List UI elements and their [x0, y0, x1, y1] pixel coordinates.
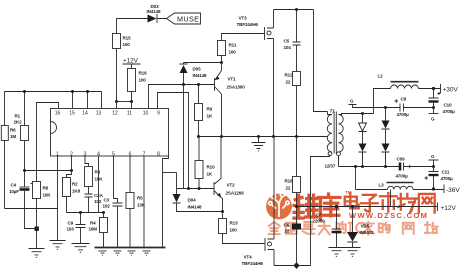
wire top rail to T1 primary top [314, 10, 328, 112]
svg-text:C9: C9 [68, 221, 74, 226]
svg-text:VT3: VT3 [239, 16, 248, 21]
svg-text:12/37: 12/37 [325, 164, 336, 169]
bottom wire VT4 source [274, 265, 311, 267]
svg-text:IN5402: IN5402 [360, 230, 375, 235]
resistor R15 [116, 19, 118, 34]
svg-text:C4: C4 [11, 183, 17, 188]
svg-text:TBF244H6: TBF244H6 [242, 261, 264, 266]
wire pin4 down [98, 156, 100, 213]
diode D9 [382, 144, 390, 152]
svg-text:1M: 1M [10, 134, 16, 139]
svg-text:100: 100 [230, 228, 238, 233]
svg-text:TBF244H6: TBF244H6 [237, 22, 259, 27]
wire pin9 staircase [158, 93, 189, 189]
diode VD5 [351, 205, 354, 208]
svg-text:100: 100 [229, 50, 237, 55]
transistor VT2 [213, 182, 215, 195]
diode D8 [384, 106, 387, 109]
net label MUSE [167, 13, 201, 24]
svg-text:D04: D04 [188, 198, 197, 203]
middle bus wire [199, 136, 328, 138]
diode D7 [359, 144, 367, 152]
resistor R13 [222, 212, 224, 219]
wire node to pin2 net [25, 170, 72, 172]
svg-text:22000: 22000 [313, 219, 326, 224]
ground [72, 244, 90, 253]
svg-text:L3: L3 [379, 183, 385, 188]
svg-text:L2: L2 [378, 74, 384, 79]
svg-text:R4: R4 [90, 221, 96, 226]
resistor R4 [103, 213, 105, 218]
wire bus to pin13 [101, 92, 103, 109]
svg-text:R2: R2 [72, 182, 78, 187]
svg-text:C8: C8 [401, 97, 407, 102]
transistor VT4 MOSFET [264, 238, 266, 251]
svg-text:15: 15 [69, 111, 75, 117]
svg-text:R18: R18 [285, 179, 294, 184]
node R15/R16 branch [115, 100, 118, 103]
svg-text:16: 16 [55, 111, 61, 117]
svg-text:G: G [431, 154, 435, 159]
node VT2 emitter [221, 210, 224, 213]
svg-text:14: 14 [82, 111, 88, 117]
svg-text:10: 10 [143, 111, 149, 117]
svg-text:+30V: +30V [443, 87, 459, 94]
svg-text:1K8: 1K8 [72, 189, 81, 194]
svg-text:13: 13 [96, 111, 102, 117]
svg-text:11: 11 [127, 111, 132, 117]
T1 primary winding [327, 115, 332, 153]
wire D05 to D04 vertical [183, 85, 185, 189]
resistor R9 [197, 83, 200, 86]
svg-text:R15: R15 [123, 36, 132, 41]
watermark text dianzishichangwang [345, 193, 435, 213]
svg-text:4700µ: 4700µ [397, 112, 410, 117]
inductor L1 bead [292, 224, 301, 230]
ground G [432, 165, 435, 168]
resistor R1 [24, 92, 26, 126]
svg-text:IN4148: IN4148 [188, 205, 203, 210]
svg-text:102: 102 [103, 204, 111, 209]
capacitor C7 [335, 205, 339, 209]
wire +12V line [297, 203, 438, 212]
svg-text:VT2: VT2 [227, 183, 236, 188]
wire IC pin1 down [57, 156, 59, 241]
wire diode legs to bus [363, 152, 386, 167]
svg-text:C5: C5 [284, 39, 290, 44]
svg-text:WWW.DZSC.COM: WWW.DZSC.COM [349, 211, 428, 220]
wire pin6 down [129, 156, 131, 193]
ground on bus [252, 137, 266, 151]
svg-text:22: 22 [285, 229, 290, 234]
wire pin3 down [85, 156, 89, 167]
wire pin8 to ground bus [163, 156, 169, 248]
svg-text:2SA1266: 2SA1266 [226, 191, 245, 196]
svg-text:C7: C7 [316, 213, 322, 218]
svg-text:R11: R11 [229, 43, 237, 48]
svg-text:R16: R16 [139, 71, 148, 76]
wire pin7 down [143, 156, 145, 248]
svg-text:+12V: +12V [441, 205, 457, 212]
T1 secondary winding [339, 115, 344, 153]
wire MUSE net [117, 18, 167, 20]
svg-text:MUSE: MUSE [177, 15, 199, 24]
resistor R5 [126, 193, 134, 209]
diode D05 [180, 63, 188, 65]
svg-text:1: 1 [56, 152, 59, 158]
ground [329, 248, 345, 257]
svg-text:8: 8 [157, 152, 160, 158]
svg-text:1K: 1K [207, 114, 213, 119]
svg-text:10µF: 10µF [9, 189, 19, 194]
svg-text:IN4148: IN4148 [147, 9, 162, 14]
resistor R3 [85, 167, 93, 187]
wire pin2 down [67, 156, 72, 178]
wire to T1 primary bottom [311, 155, 330, 266]
watermark text WEIKU large [294, 194, 340, 219]
wire pin10 to VT1 base [149, 85, 215, 109]
svg-text:13K: 13K [137, 203, 146, 208]
svg-text:C10: C10 [444, 103, 453, 108]
watermark slogan salmon [269, 222, 438, 234]
svg-text:C11: C11 [442, 170, 450, 175]
wire VT3 source down [273, 41, 275, 137]
svg-text:103: 103 [67, 227, 75, 232]
capacitor C4 [20, 186, 30, 188]
svg-text:C09: C09 [397, 157, 406, 162]
svg-text:R6: R6 [10, 128, 16, 133]
svg-text:G: G [350, 99, 354, 104]
diode bridge D6 [361, 112, 364, 115]
wire left rail to ground [5, 208, 58, 210]
svg-text:2K2: 2K2 [14, 120, 23, 125]
wire rectifier top to L2 [363, 89, 391, 114]
svg-text:VT1: VT1 [228, 77, 237, 82]
ground [29, 249, 45, 258]
svg-text:R13: R13 [230, 221, 239, 226]
diode D03 [148, 15, 157, 23]
svg-text:VT4: VT4 [244, 255, 253, 260]
svg-text:R5: R5 [137, 196, 143, 201]
svg-text:2SA1300: 2SA1300 [227, 85, 246, 90]
svg-text:R12: R12 [285, 73, 294, 78]
svg-text:-36V: -36V [446, 187, 460, 194]
wire branch to D04 [163, 172, 177, 174]
resistor R18 [296, 137, 298, 177]
svg-text:R10: R10 [207, 165, 216, 170]
diode D04 [176, 173, 178, 195]
wire -36V output [413, 185, 444, 194]
svg-text:10K: 10K [43, 193, 52, 198]
wire pin5 down [114, 156, 118, 203]
ground [50, 241, 66, 250]
svg-text:4700µ: 4700µ [396, 174, 409, 179]
capacitor C10 [429, 89, 439, 99]
wire VT2 base net [177, 188, 214, 190]
resistor R11 [218, 41, 226, 56]
svg-text:TM: TM [345, 190, 352, 195]
ground [345, 248, 361, 257]
svg-text:4700µ: 4700µ [443, 109, 456, 114]
svg-text:10M: 10M [89, 227, 98, 232]
wire D05 top net [184, 62, 222, 64]
svg-text:R1: R1 [15, 114, 21, 119]
junction C4/R8 [35, 227, 39, 231]
resistor R2 [63, 178, 71, 197]
svg-text:4700µ: 4700µ [441, 176, 454, 181]
svg-text:C3: C3 [104, 198, 110, 203]
svg-text:1K: 1K [207, 172, 213, 177]
capacitor C5 [293, 10, 301, 72]
capacitor C9 [76, 213, 86, 244]
resistor R10 [198, 137, 200, 161]
svg-text:C6: C6 [284, 223, 290, 228]
resistor R16 [128, 69, 136, 92]
wire rectifier bottom bus [339, 156, 400, 167]
svg-text:100: 100 [139, 78, 147, 83]
svg-text:102: 102 [94, 199, 102, 204]
svg-text:100: 100 [123, 42, 131, 47]
capacitor C09 [399, 163, 402, 171]
svg-text:R3: R3 [95, 170, 101, 175]
wire L3 feed [356, 167, 388, 190]
wire down to 12V line [390, 190, 392, 207]
wire +30V output [419, 84, 441, 93]
svg-text:104: 104 [284, 45, 292, 50]
capacitor C3 [113, 203, 123, 248]
T1 core [334, 112, 336, 154]
resistor R8 [33, 182, 41, 199]
wire bus to pin14 [87, 92, 89, 109]
op IC U1 16-pin [51, 109, 169, 157]
resistor R12 [293, 72, 301, 86]
svg-text:22: 22 [286, 80, 291, 85]
top bus wire [5, 91, 102, 93]
svg-text:R8: R8 [43, 186, 49, 191]
capacitor C8 [386, 104, 434, 112]
wire sub bus [67, 212, 104, 214]
capacitor C2A [85, 194, 93, 213]
wire pin16 to R8 [37, 103, 59, 182]
ground G [432, 106, 435, 109]
capacitor C11 [429, 167, 439, 172]
logo circle DZSC [266, 194, 292, 220]
svg-text:R9: R9 [207, 107, 213, 112]
node D05 base [182, 83, 185, 86]
svg-text:IN4148: IN4148 [193, 73, 208, 78]
transistor VT1 [214, 78, 216, 91]
resistor R6 [4, 92, 6, 126]
svg-text:VD5: VD5 [361, 224, 370, 229]
wire bus to pin15 [72, 92, 74, 109]
svg-text:+12V: +12V [123, 58, 139, 65]
top rail [274, 9, 314, 11]
svg-text:D05: D05 [193, 67, 202, 72]
ground bus [95, 247, 166, 249]
svg-text:G: G [431, 117, 435, 122]
svg-text:22: 22 [286, 186, 291, 191]
svg-text:9: 9 [157, 111, 160, 117]
svg-text:12: 12 [112, 111, 118, 117]
